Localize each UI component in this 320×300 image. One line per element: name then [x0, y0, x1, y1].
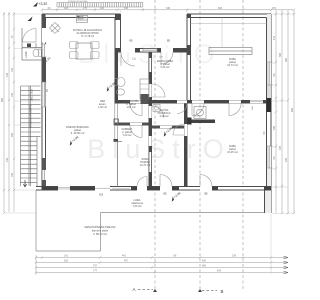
- level mark outside +2.98: [169, 191, 181, 202]
- bath sink: [117, 89, 125, 95]
- bottom dimension lines: [35, 255, 288, 275]
- label lodja: [131, 199, 143, 208]
- svg-text:155: 155: [11, 172, 14, 177]
- plant: [50, 23, 61, 34]
- beam line top-right room: [191, 23, 267, 25]
- wall right exterior: [265, 14, 272, 213]
- right dimension numbers: [263, 35, 294, 162]
- svg-text:120: 120: [11, 67, 14, 72]
- interior wall bath left vertical: [115, 14, 121, 104]
- door arc hodnik bottom: [137, 177, 147, 187]
- door arc soba2: [229, 104, 241, 116]
- door arc radna: [161, 52, 173, 64]
- svg-text:625: 625: [218, 7, 223, 10]
- svg-text:A: A: [132, 287, 135, 292]
- svg-text:STREHA KROVA IZNAD: STREHA KROVA IZNAD: [68, 0, 88, 3]
- wall right-block left: [187, 14, 191, 104]
- svg-text:205: 205: [99, 193, 104, 197]
- entry door arc: [23, 29, 37, 43]
- door arc bath: [121, 52, 135, 66]
- svg-text:B: B: [220, 289, 223, 294]
- wc toilet: [33, 49, 41, 57]
- wall top-right block: [187, 14, 271, 18]
- washer: [194, 107, 206, 119]
- svg-text:441: 441: [122, 255, 127, 258]
- left dimension numbers: [1, 35, 14, 177]
- svg-text:16x17,5/28: 16x17,5/28: [31, 88, 34, 101]
- label izba: [98, 100, 107, 109]
- door arc radna soba side: [152, 84, 165, 97]
- top dimension numbers: [48, 7, 277, 10]
- chair RT: [91, 42, 100, 49]
- interior wall right vertical: [184, 104, 188, 187]
- svg-text:420: 420: [202, 260, 207, 263]
- svg-text:16,74 m2: 16,74 m2: [227, 64, 238, 67]
- svg-text:262: 262: [64, 260, 69, 263]
- svg-text:+3.30: +3.30: [39, 2, 48, 6]
- section line B: [199, 0, 201, 292]
- svg-text:450: 450: [6, 157, 9, 162]
- svg-text:457: 457: [124, 260, 129, 263]
- interior wall center vertical: [149, 52, 153, 186]
- door arc praonica side: [173, 124, 184, 135]
- wc bottom wall: [22, 59, 42, 61]
- svg-text:tl. 89,73 m2: tl. 89,73 m2: [93, 232, 107, 236]
- extension SE corner down: [270, 214, 272, 274]
- svg-text:10,25 m2: 10,25 m2: [227, 151, 238, 154]
- right dimension lines: [269, 10, 295, 214]
- extension lines right: [272, 14, 294, 214]
- section marker B: [198, 289, 224, 294]
- level mark dnevni +2.98: [67, 135, 79, 146]
- interior wall mid horizontal: [115, 48, 187, 53]
- svg-text:TL.17,78 m2: TL.17,78 m2: [81, 36, 95, 38]
- door arc hall entry: [177, 104, 187, 114]
- wall left exterior: [42, 14, 46, 190]
- label garderoba: [123, 100, 139, 109]
- partition glass below v5: [115, 104, 118, 142]
- laundry sink: [153, 105, 160, 112]
- terrace upper edge: [101, 212, 272, 214]
- section marker A: [132, 287, 157, 292]
- stairs treads: [21, 86, 41, 183]
- eaves hatched strip: [57, 3, 143, 8]
- svg-text:194: 194: [64, 7, 69, 10]
- extension lines left: [5, 14, 42, 213]
- terrace bottom edge: [36, 250, 101, 252]
- window right wall upper: [266, 62, 273, 85]
- bath shower column: [140, 79, 149, 104]
- bottom dimension arrows: [284, 256, 289, 274]
- door arc soba1: [192, 104, 204, 116]
- terrace door line: [95, 187, 110, 189]
- svg-text:3,48 m2: 3,48 m2: [159, 115, 169, 118]
- svg-text:141: 141: [64, 255, 69, 258]
- extension lines top: [42, 8, 271, 13]
- svg-text:370: 370: [272, 7, 277, 10]
- window left wall: [41, 82, 47, 107]
- svg-text:KUHINJA, BLAGOVAONICA: KUHINJA, BLAGOVAONICA: [73, 29, 103, 32]
- svg-text:380: 380: [279, 52, 282, 57]
- dining table: [76, 43, 92, 59]
- svg-text:7,20 m2: 7,20 m2: [122, 134, 132, 137]
- svg-text:175: 175: [83, 7, 88, 10]
- window right wall lower: [266, 146, 273, 168]
- label kitchen: [73, 29, 103, 38]
- entry threshold: [27, 44, 31, 48]
- label radna soba: [157, 60, 174, 69]
- door arc terrace2: [200, 175, 212, 187]
- label soba small: [227, 145, 238, 154]
- svg-text:VANJSKO STUBIŠTE: VANJSKO STUBIŠTE: [30, 104, 33, 128]
- svg-text:265: 265: [273, 125, 276, 130]
- svg-text:+3.30: +3.30: [24, 51, 28, 58]
- svg-text:SA ZIMSKIM VRTOM: SA ZIMSKIM VRTOM: [77, 32, 99, 35]
- svg-text:5,46 m2: 5,46 m2: [160, 66, 170, 69]
- window in middle wall: [143, 49, 157, 52]
- label hodnik: [140, 158, 151, 167]
- level mark +2.33: [39, 56, 51, 67]
- top dimension line: [41, 9, 295, 11]
- svg-text:125: 125: [11, 92, 14, 97]
- terrace step edge: [100, 213, 102, 252]
- terrace left edge: [35, 190, 37, 251]
- interior wall hodnik corner: [114, 142, 123, 187]
- wall top-left block: [42, 14, 121, 18]
- section line C: [242, 0, 244, 290]
- corner level arrow: [28, 17, 33, 22]
- svg-text:375: 375: [279, 145, 282, 150]
- interior wall laundry bottom: [152, 126, 187, 129]
- svg-text:777: 777: [93, 270, 98, 273]
- svg-text:424: 424: [217, 270, 222, 273]
- svg-text:kamene ploče: kamene ploče: [92, 229, 109, 233]
- svg-text:1,50 m2: 1,50 m2: [98, 106, 107, 109]
- svg-text:tl. 30,50 m2: tl. 30,50 m2: [71, 131, 85, 135]
- window bottom wall: [58, 188, 70, 189]
- label terasa: [85, 225, 116, 236]
- svg-text:490: 490: [285, 157, 288, 162]
- stairs stringers: [21, 86, 38, 186]
- label dnevni boravak: [66, 125, 89, 135]
- interior wall hall south: [192, 120, 216, 124]
- level mark kitchen +2.98: [104, 81, 116, 92]
- wall jamb pier: [187, 118, 191, 125]
- svg-text:757: 757: [93, 265, 98, 268]
- svg-text:330: 330: [166, 7, 171, 10]
- svg-text:880: 880: [291, 107, 294, 112]
- interior wall garderoba bottom: [114, 123, 152, 126]
- kabinet corner block: [114, 139, 119, 142]
- svg-text:BluStrO: BluStrO: [87, 134, 231, 164]
- label praonica: [157, 109, 170, 118]
- svg-text:1,81 m2: 1,81 m2: [126, 106, 136, 109]
- label soba big: [227, 58, 238, 67]
- svg-text:430: 430: [6, 72, 9, 77]
- chair LB: [70, 52, 79, 59]
- section line A: [154, 0, 156, 292]
- bottom dimension numbers: [64, 255, 237, 273]
- svg-text:378: 378: [232, 255, 237, 258]
- svg-text:880: 880: [1, 97, 4, 102]
- door arc garderoba entry: [130, 104, 142, 116]
- svg-text:B105: B105: [194, 116, 200, 118]
- svg-text:160: 160: [100, 7, 105, 10]
- svg-text:345: 345: [124, 7, 129, 10]
- svg-text:260: 260: [11, 132, 14, 137]
- chair RB: [91, 52, 100, 59]
- svg-text:210: 210: [273, 35, 276, 40]
- level mark +3.30: [33, 2, 47, 7]
- stairs direction arrow: [23, 180, 26, 187]
- wall bottom exterior: [36, 186, 271, 191]
- svg-text:10,76 m2: 10,76 m2: [140, 164, 151, 167]
- svg-text:480: 480: [202, 265, 207, 268]
- svg-text:380: 380: [285, 57, 288, 62]
- door arc terrace1: [160, 175, 172, 187]
- window left wall upper: [41, 44, 47, 57]
- svg-text:NENATKRIVENA TERASA: NENATKRIVENA TERASA: [85, 225, 116, 229]
- partition junction post: [114, 119, 118, 125]
- label kabinet: [122, 128, 133, 137]
- interior wall big horizontal: [115, 100, 267, 104]
- chair LT: [70, 42, 79, 49]
- left dimension lines: [3, 12, 15, 214]
- level mark praonica +2.98: [161, 126, 173, 137]
- door arc praonica entry: [152, 106, 164, 118]
- bath toilet: [115, 78, 126, 87]
- entry porch lines: [22, 28, 42, 60]
- svg-text:7,34 m2: 7,34 m2: [132, 205, 142, 208]
- kitchen counter: [77, 16, 88, 23]
- door arc garderoba: [130, 126, 142, 138]
- wardrobe right room: [209, 48, 252, 55]
